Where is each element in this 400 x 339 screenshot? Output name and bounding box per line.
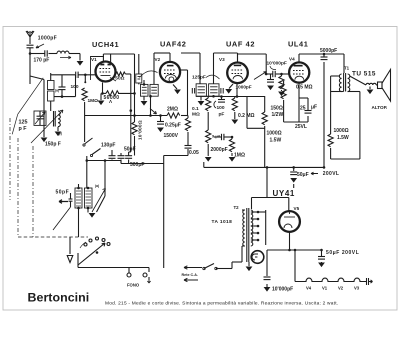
svg-text:(a): (a): [95, 184, 99, 188]
svg-text:ALTOP.: ALTOP.: [372, 105, 388, 110]
svg-text:5000pF: 5000pF: [320, 48, 337, 54]
svg-text:V3: V3: [219, 57, 225, 62]
svg-text:T1: T1: [344, 66, 350, 71]
svg-text:1/2W: 1/2W: [272, 112, 284, 118]
svg-text:100: 100: [217, 105, 225, 111]
svg-text:0.05: 0.05: [189, 150, 199, 156]
svg-text:125: 125: [19, 120, 28, 126]
svg-text:125pF: 125pF: [192, 75, 206, 81]
svg-text:1000Ω: 1000Ω: [267, 131, 282, 137]
svg-text:1MΩ: 1MΩ: [88, 98, 99, 104]
svg-text:1MΩ: 1MΩ: [234, 153, 245, 159]
svg-text:0.1: 0.1: [192, 106, 199, 112]
svg-text:Bertoncini: Bertoncini: [28, 291, 90, 305]
svg-text:0.25μF: 0.25μF: [165, 123, 181, 129]
svg-text:μF: μF: [311, 105, 317, 111]
svg-text:0.2 MΩ: 0.2 MΩ: [238, 113, 255, 119]
svg-text:170 pF: 170 pF: [34, 58, 50, 64]
svg-text:25VL: 25VL: [295, 124, 307, 130]
svg-text:UY41: UY41: [273, 189, 295, 198]
svg-text:50μF 200VL: 50μF 200VL: [326, 250, 359, 256]
svg-text:T2: T2: [234, 205, 240, 210]
svg-text:50μF: 50μF: [297, 172, 309, 178]
svg-text:10'000pF: 10'000pF: [267, 61, 287, 67]
svg-text:100: 100: [71, 84, 79, 90]
svg-text:50Ω: 50Ω: [115, 76, 124, 82]
svg-text:150Ω: 150Ω: [271, 106, 283, 112]
svg-text:1000pF: 1000pF: [236, 85, 252, 90]
svg-text:500pF: 500pF: [130, 162, 144, 168]
svg-text:(p): (p): [58, 132, 62, 136]
svg-text:FONO: FONO: [127, 283, 140, 288]
svg-text:150p F: 150p F: [45, 142, 61, 148]
svg-text:V1: V1: [322, 286, 328, 291]
svg-text:1.5W: 1.5W: [337, 135, 349, 141]
svg-text:1.5W: 1.5W: [270, 138, 282, 144]
svg-text:(a): (a): [55, 89, 59, 93]
svg-text:1000pF: 1000pF: [38, 36, 57, 42]
svg-text:25: 25: [300, 106, 306, 112]
svg-text:pF: pF: [219, 112, 225, 118]
svg-text:V2: V2: [155, 57, 161, 62]
svg-text:MΩ: MΩ: [192, 112, 200, 118]
svg-text:TU 515: TU 515: [352, 71, 376, 78]
svg-text:V1: V1: [91, 57, 97, 62]
svg-text:UCH41: UCH41: [92, 40, 119, 49]
svg-text:9 μΛ: 9 μΛ: [212, 134, 221, 139]
svg-text:50pF: 50pF: [56, 190, 70, 196]
svg-text:Mod. 215 - Medie e corte divis: Mod. 215 - Medie e corte divise. Sintoni…: [105, 301, 338, 307]
svg-text:2MΩ: 2MΩ: [167, 107, 178, 113]
svg-text:V4: V4: [289, 57, 295, 62]
svg-text:V5: V5: [294, 206, 300, 211]
svg-text:TA 1018: TA 1018: [212, 219, 233, 225]
svg-text:p F: p F: [19, 126, 28, 132]
svg-text:2000pF: 2000pF: [211, 147, 228, 153]
svg-text:UAF42: UAF42: [160, 40, 186, 49]
svg-text:V4: V4: [306, 286, 312, 291]
svg-text:10'000Ω: 10'000Ω: [138, 120, 143, 140]
svg-text:1500V: 1500V: [164, 133, 179, 139]
svg-text:10'000pF: 10'000pF: [272, 287, 293, 293]
svg-text:200VL: 200VL: [323, 171, 339, 177]
svg-text:UAF 42: UAF 42: [226, 40, 255, 49]
svg-text:50pF: 50pF: [124, 147, 136, 153]
svg-text:UL41: UL41: [288, 40, 308, 49]
svg-text:1000Ω: 1000Ω: [334, 128, 349, 134]
svg-text:V3: V3: [354, 286, 360, 291]
svg-text:130pF: 130pF: [101, 143, 115, 149]
svg-text:V2: V2: [338, 286, 344, 291]
svg-text:Rete C.A.: Rete C.A.: [182, 273, 198, 277]
